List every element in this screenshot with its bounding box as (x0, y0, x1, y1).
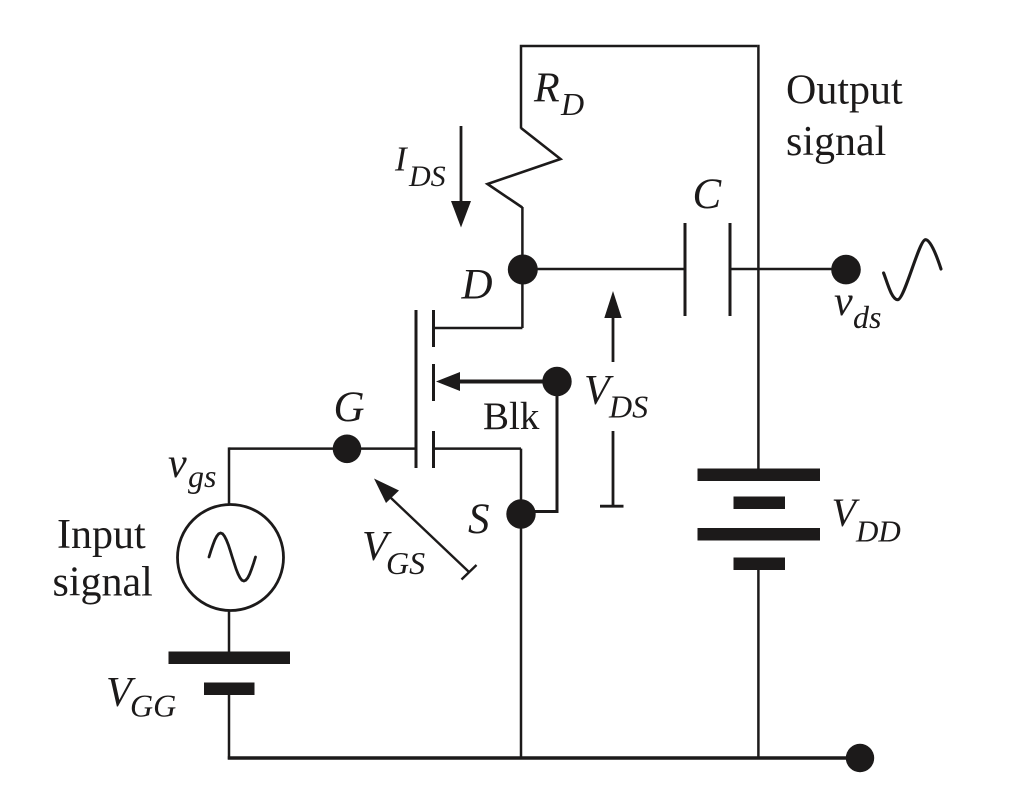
V_GS end tick (T-bar) (462, 565, 477, 580)
svg-text:S: S (468, 496, 490, 543)
battery V_GG negative plate (short) (204, 683, 255, 696)
MOSFET gate line (415, 310, 418, 468)
bulk arrow line (Blk terminal into channel) (458, 380, 556, 384)
battery V_DD plate 1 (long) (698, 469, 821, 482)
ground/reference terminal dot (846, 744, 874, 772)
svg-text:DS: DS (608, 389, 648, 425)
svg-text:G: G (334, 384, 365, 431)
AC source circle (input signal source) (178, 505, 284, 611)
label V_DS (584, 368, 648, 425)
wire: capacitor C to output terminal (730, 268, 833, 271)
bulk arrowhead (436, 372, 460, 391)
V_GS arrowhead (374, 479, 399, 504)
label v_gs (168, 441, 216, 494)
svg-text:v: v (168, 441, 187, 487)
I_DS arrowhead (451, 201, 471, 228)
label Input signal (53, 512, 153, 606)
MOSFET drain lead (horizontal) (434, 327, 523, 330)
svg-text:gs: gs (188, 458, 216, 494)
wire: drain node to capacitor C left plate (523, 268, 685, 271)
svg-text:D: D (461, 262, 493, 309)
wire: battery V_GG to bottom rail (228, 695, 231, 760)
wire: right vertical from top rail down to V_DD top plate (757, 45, 760, 469)
label v_ds (834, 279, 881, 335)
node Blk (bulk terminal dot) (542, 367, 571, 396)
battery V_GG positive plate (long) (169, 652, 291, 665)
svg-text:DS: DS (408, 160, 446, 193)
battery V_DD plate 2 (short) (734, 497, 786, 510)
wire: battery V_DD bottom to bottom rail (757, 570, 760, 758)
svg-text:Output: Output (786, 68, 903, 114)
wire: source lead down to node S (520, 449, 523, 514)
wire: gate wire corner down to AC source top (228, 447, 231, 505)
resistor R_D (zigzag body) (488, 128, 561, 208)
wire: top rail from R_D top lead to top-right corner (521, 46, 757, 129)
V_DS lower reference line (612, 431, 615, 506)
output terminal dot (831, 255, 861, 285)
svg-text:v: v (834, 279, 853, 325)
node S (source junction dot) (506, 499, 535, 528)
V_DS lower T-bar (600, 505, 624, 508)
V_DS up arrow line (612, 318, 615, 362)
capacitor C (two plates) (685, 223, 730, 316)
label V_GS (362, 524, 425, 581)
node G (gate junction dot) (333, 435, 362, 464)
svg-text:ds: ds (853, 299, 881, 335)
svg-text:R: R (533, 66, 560, 112)
wire: AC source bottom to battery V_GG (228, 610, 231, 652)
svg-text:D: D (560, 86, 584, 122)
battery V_DD plate 4 (short) (734, 558, 786, 571)
label V_DD (832, 490, 901, 549)
wire: gate lead from input branch through node G to gate (229, 447, 416, 450)
svg-text:GG: GG (130, 688, 176, 724)
node D (drain junction dot) (508, 255, 538, 285)
V_GS arrow line (391, 498, 469, 572)
MOSFET channel segment (bulk, middle) (432, 364, 435, 401)
wire: Blk terminal down and left into node S (534, 382, 557, 512)
AC source sine symbol (209, 533, 256, 581)
svg-text:signal: signal (53, 560, 153, 606)
wire: drain node down to MOSFET drain lead (521, 269, 524, 328)
label Output signal (786, 68, 903, 166)
label V_GG (106, 670, 176, 724)
wire: R_D bottom lead down to drain node (521, 207, 524, 269)
svg-text:signal: signal (786, 119, 886, 165)
svg-text:C: C (693, 171, 723, 218)
battery V_DD plate 3 (long) (698, 528, 821, 541)
V_DS up arrowhead (604, 291, 621, 318)
wire: node S down to bottom rail (520, 514, 523, 758)
svg-text:Blk: Blk (483, 395, 540, 438)
label I_DS (394, 140, 446, 194)
svg-text:Input: Input (57, 512, 146, 558)
MOSFET channel segment (source side) (432, 431, 435, 468)
bottom rail wire (common/reference) (228, 756, 846, 760)
output sine squiggle (884, 240, 941, 300)
label R_D (533, 66, 584, 123)
svg-text:GS: GS (386, 545, 425, 581)
MOSFET source lead (horizontal) (434, 447, 522, 450)
svg-text:DD: DD (855, 514, 901, 549)
I_DS current arrow line (460, 126, 463, 202)
MOSFET channel segment (drain side) (432, 310, 435, 347)
svg-text:I: I (394, 140, 409, 179)
